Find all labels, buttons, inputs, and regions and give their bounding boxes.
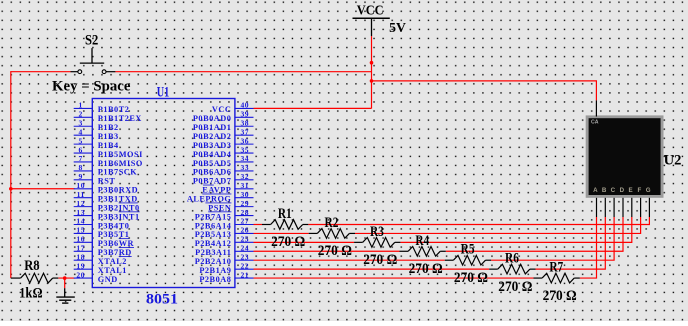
svg-text:6: 6 (79, 145, 83, 154)
wire: row pin24 to display (446, 217, 623, 251)
pin 21 stub (235, 277, 254, 279)
svg-text:31: 31 (241, 181, 250, 190)
svg-text:P3B2INT0: P3B2INT0 (98, 203, 140, 212)
svg-text:P0B3AD3: P0B3AD3 (193, 141, 232, 150)
svg-text:P2B3A11: P2B3A11 (195, 248, 231, 257)
svg-text:B: B (602, 187, 607, 194)
svg-text:XTAL1: XTAL1 (98, 266, 127, 275)
pin 11 stub (74, 197, 93, 199)
svg-text:P0B7AD7: P0B7AD7 (193, 177, 232, 186)
svg-text:E: E (629, 187, 633, 194)
svg-text:P0B0AD0: P0B0AD0 (193, 114, 232, 123)
pin 3 stub (74, 125, 93, 127)
svg-text:7: 7 (79, 154, 83, 163)
display U2 seven-segment (586, 115, 664, 197)
svg-text:270 Ω: 270 Ω (454, 270, 488, 286)
ground (64, 288, 66, 297)
pin 33 stub (235, 170, 254, 172)
pin 32 stub (235, 179, 254, 181)
svg-text:270 Ω: 270 Ω (543, 288, 577, 304)
svg-text:5: 5 (79, 136, 83, 145)
pin 4 stub (74, 134, 93, 136)
svg-text:30: 30 (241, 190, 250, 199)
pin 27 stub (235, 223, 254, 225)
pin 31 stub (235, 188, 254, 190)
svg-text:8051: 8051 (146, 291, 178, 307)
resistor R3 (354, 241, 363, 243)
svg-text:20: 20 (76, 270, 85, 279)
pin 37 stub (235, 134, 254, 136)
pin 6 stub (74, 152, 93, 154)
wire: row pin23 to display (491, 217, 614, 260)
svg-text:4: 4 (79, 127, 83, 136)
svg-text:21: 21 (241, 270, 250, 279)
pin 19 stub (74, 268, 93, 270)
display bottom pins (596, 198, 598, 217)
pin 26 stub (235, 232, 254, 234)
wire: VCC to pin40 (254, 107, 372, 109)
wire: junction down to ground (64, 278, 66, 288)
pin 38 stub (235, 125, 254, 127)
svg-text:36: 36 (241, 136, 250, 145)
svg-text:P1B7SCK: P1B7SCK (98, 168, 138, 177)
wire: left rail vertical (10, 71, 12, 278)
svg-text:17: 17 (76, 243, 85, 252)
wire: VCC to display CA (372, 81, 597, 101)
svg-text:2: 2 (79, 110, 83, 119)
power VCC (353, 17, 390, 19)
svg-text:P0B4AD4: P0B4AD4 (193, 150, 232, 159)
svg-text:XTAL2: XTAL2 (98, 257, 127, 266)
resistor R4 (400, 250, 409, 252)
wire: VCC vertical (371, 36, 373, 108)
svg-text:R7: R7 (549, 260, 563, 276)
svg-text:P1B2: P1B2 (98, 123, 119, 132)
svg-text:270 Ω: 270 Ω (318, 243, 352, 259)
svg-text:18: 18 (76, 252, 85, 261)
svg-text:270 Ω: 270 Ω (271, 234, 305, 250)
svg-text:P1B6MISO: P1B6MISO (98, 159, 143, 168)
svg-text:10: 10 (76, 181, 85, 190)
pin 17 stub (74, 250, 93, 252)
svg-text:R8: R8 (24, 258, 39, 274)
pin 14 stub (74, 223, 93, 225)
svg-text:A: A (593, 187, 598, 194)
wire: row pin26 left (254, 232, 309, 234)
pin 22 stub (235, 268, 254, 270)
svg-text:P0B1AD1: P0B1AD1 (193, 123, 232, 132)
svg-text:PSEN: PSEN (208, 203, 231, 212)
switch S2 (71, 71, 78, 73)
svg-text:Key = Space: Key = Space (52, 78, 131, 94)
svg-text:1kΩ: 1kΩ (19, 286, 42, 302)
pin 35 stub (235, 152, 254, 154)
svg-text:F: F (638, 187, 642, 194)
svg-text:D: D (620, 187, 625, 194)
svg-text:R4: R4 (415, 233, 429, 249)
pin 24 stub (235, 250, 254, 252)
svg-text:P3B0RXD: P3B0RXD (98, 186, 138, 195)
resistor R7 (534, 277, 543, 279)
wire: left rail to pin10 (11, 188, 75, 190)
svg-text:25: 25 (241, 235, 250, 244)
junction at ground node (63, 276, 67, 280)
pin 36 stub (235, 143, 254, 145)
svg-text:22: 22 (241, 261, 250, 270)
svg-text:270 Ω: 270 Ω (409, 261, 443, 277)
pin 2 stub (74, 116, 93, 118)
svg-text:P3B6WR: P3B6WR (98, 239, 135, 248)
pin 34 stub (235, 161, 254, 163)
svg-text:R3: R3 (370, 224, 384, 240)
svg-text:270 Ω: 270 Ω (363, 252, 397, 268)
pin 30 stub (235, 197, 254, 199)
svg-text:P1B0T2: P1B0T2 (98, 105, 130, 114)
wire: switch left lead to left rail (11, 71, 71, 73)
svg-text:S2: S2 (85, 32, 98, 48)
svg-text:P3B3INT1: P3B3INT1 (98, 212, 140, 221)
wire: row pin27 to display (308, 217, 649, 224)
display CA pin stub (595, 100, 597, 116)
svg-text:24: 24 (241, 243, 250, 252)
pin 25 stub (235, 241, 254, 243)
svg-text:C: C (611, 187, 616, 194)
svg-text:EAVPP: EAVPP (202, 186, 231, 195)
pin 7 stub (74, 161, 93, 163)
svg-text:P0B6AD6: P0B6AD6 (193, 168, 232, 177)
svg-text:R1: R1 (278, 206, 292, 222)
svg-text:13: 13 (76, 208, 85, 217)
pin 12 stub (74, 206, 93, 208)
pin 9 stub (74, 179, 93, 181)
svg-text:P3B1TXD: P3B1TXD (98, 195, 138, 204)
svg-text:26: 26 (241, 226, 250, 235)
svg-text:35: 35 (241, 145, 250, 154)
svg-text:U1: U1 (157, 85, 170, 101)
svg-text:P2B6A14: P2B6A14 (195, 221, 232, 230)
svg-text:P0B5AD5: P0B5AD5 (193, 159, 232, 168)
svg-text:19: 19 (76, 261, 85, 270)
svg-text:11: 11 (77, 190, 85, 199)
svg-text:R6: R6 (505, 251, 519, 267)
resistor R2 (309, 232, 318, 234)
svg-text:P2B4A12: P2B4A12 (195, 239, 232, 248)
svg-text:GND: GND (98, 275, 118, 284)
pin 8 stub (74, 170, 93, 172)
svg-text:P1B4: P1B4 (98, 141, 119, 150)
svg-text:VCC: VCC (212, 105, 231, 114)
pin 18 stub (74, 259, 93, 261)
svg-text:ALEPROG: ALEPROG (187, 195, 232, 204)
svg-text:9: 9 (79, 172, 83, 181)
wire: row pin27 left (254, 223, 263, 225)
pin 15 stub (74, 232, 93, 234)
svg-text:P2B1A9: P2B1A9 (199, 266, 231, 275)
svg-text:12: 12 (76, 199, 85, 208)
resistor R8 (11, 277, 21, 279)
svg-text:P3B5T1: P3B5T1 (98, 230, 130, 239)
svg-text:270 Ω: 270 Ω (498, 279, 532, 295)
junction at VCC rail upper (370, 61, 374, 65)
svg-text:P2B7A15: P2B7A15 (195, 212, 232, 221)
svg-text:P1B5MOSI: P1B5MOSI (98, 150, 143, 159)
pin 39 stub (235, 116, 254, 118)
wire: row pin25 to display (400, 217, 631, 242)
svg-text:27: 27 (241, 217, 250, 226)
svg-text:34: 34 (241, 154, 250, 163)
svg-text:R5: R5 (461, 242, 475, 258)
svg-text:8: 8 (79, 163, 83, 172)
svg-text:28: 28 (241, 208, 250, 217)
svg-text:16: 16 (76, 235, 85, 244)
wire: row pin22 to display (536, 217, 606, 269)
svg-text:RST: RST (98, 177, 116, 186)
svg-text:P0B2AD2: P0B2AD2 (193, 132, 232, 141)
svg-text:15: 15 (76, 226, 85, 235)
svg-text:G: G (646, 187, 651, 194)
pin 10 stub (74, 188, 93, 190)
pin 29 stub (235, 206, 254, 208)
svg-text:5V: 5V (389, 20, 406, 35)
resistor R6 (489, 268, 498, 270)
junction at VCC rail lower (370, 79, 374, 83)
svg-text:38: 38 (241, 118, 250, 127)
svg-text:P3B4T0: P3B4T0 (98, 221, 130, 230)
svg-text:VCC: VCC (357, 4, 384, 19)
pin 16 stub (74, 241, 93, 243)
IC U1 8051 box (92, 99, 235, 288)
svg-text:1: 1 (79, 101, 83, 110)
svg-text:P1B1T2EX: P1B1T2EX (98, 114, 142, 123)
junction at left rail pin10 (9, 187, 13, 191)
svg-text:P3B7RD: P3B7RD (98, 248, 132, 257)
pin 28 stub (235, 215, 254, 217)
pin 5 stub (74, 143, 93, 145)
svg-text:29: 29 (241, 199, 250, 208)
svg-text:U2: U2 (664, 153, 682, 169)
svg-text:39: 39 (241, 110, 250, 119)
svg-text:14: 14 (76, 217, 85, 226)
pin 20 stub (74, 277, 93, 279)
svg-text:P1B3: P1B3 (98, 132, 119, 141)
svg-text:3: 3 (79, 118, 83, 127)
pin 40 stub (235, 107, 254, 109)
svg-text:37: 37 (241, 127, 250, 136)
svg-text:40: 40 (241, 101, 250, 110)
svg-text:R2: R2 (325, 215, 339, 231)
wire: row pin22 left (254, 268, 490, 270)
wire: row pin23 left (254, 259, 445, 261)
wire: row pin21 to display (580, 217, 597, 278)
wire: row pin26 to display (355, 217, 641, 233)
svg-text:23: 23 (241, 252, 250, 261)
svg-text:P2B0A8: P2B0A8 (199, 275, 231, 284)
pin 13 stub (74, 215, 93, 217)
svg-text:33: 33 (241, 163, 250, 172)
pin 23 stub (235, 259, 254, 261)
resistor R1 (262, 223, 271, 225)
resistor R5 (445, 259, 454, 261)
wire: R8 to GND junction and pin20 (58, 277, 74, 279)
svg-text:32: 32 (241, 172, 250, 181)
svg-text:CA: CA (591, 119, 599, 125)
svg-text:P2B5A13: P2B5A13 (195, 230, 232, 239)
pin 1 stub (74, 107, 93, 109)
wire: row pin24 left (254, 250, 400, 252)
wire: row pin21 left (254, 277, 534, 279)
wire: switch right to VCC rail (115, 71, 371, 73)
wire: row pin25 left (254, 241, 355, 243)
svg-text:P2B2A10: P2B2A10 (195, 257, 232, 266)
